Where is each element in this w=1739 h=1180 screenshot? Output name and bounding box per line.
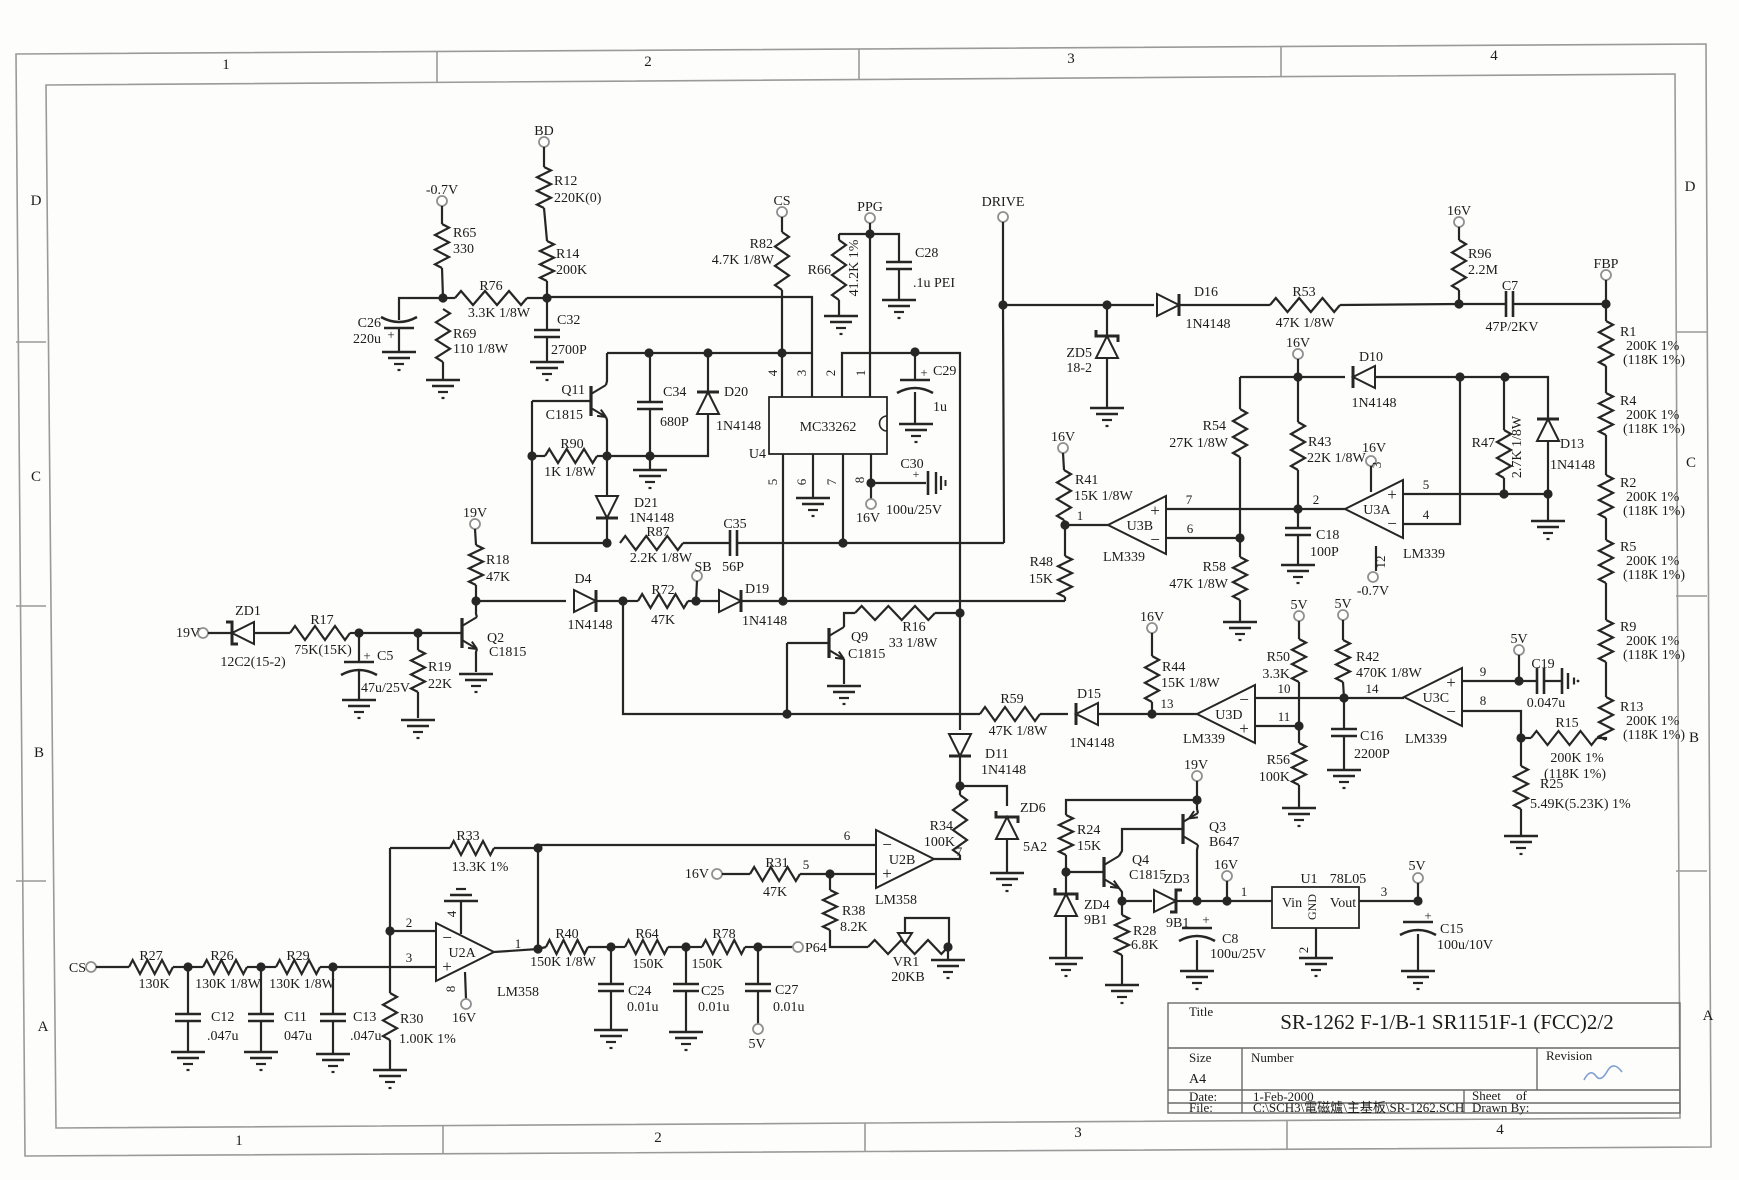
- svg-text:4: 4: [1496, 1122, 1504, 1138]
- svg-text:1N4148: 1N4148: [629, 511, 674, 526]
- svg-text:16V: 16V: [1140, 610, 1164, 625]
- wire R66 bridge: [839, 233, 870, 235]
- svg-text:4: 4: [1490, 48, 1498, 64]
- wire R31 to 5 node: [800, 873, 876, 875]
- svg-text:DRIVE: DRIVE: [982, 195, 1025, 210]
- svg-text:C8: C8: [1222, 932, 1238, 947]
- wire ZD1 to R17: [254, 632, 290, 634]
- wire 6 net: [1166, 537, 1240, 539]
- svg-text:1N4148: 1N4148: [981, 763, 1026, 778]
- regulator U1 78L05 box: [1272, 872, 1366, 928]
- wire U4 pin5: [782, 454, 784, 601]
- svg-text:R96: R96: [1468, 247, 1491, 262]
- resistor R96: [1452, 240, 1499, 290]
- ground C24: [594, 1030, 628, 1048]
- svg-text:100u/10V: 100u/10V: [1437, 938, 1493, 953]
- wire R47 top: [1503, 377, 1505, 430]
- diode D15: [1069, 687, 1114, 751]
- ground C32: [530, 362, 564, 380]
- svg-text:16V: 16V: [1362, 441, 1386, 456]
- wire R48 to D19 line: [1064, 597, 1066, 601]
- wire emitter bus: [607, 414, 708, 456]
- title block frame: [1168, 1003, 1680, 1113]
- svg-text:18-2: 18-2: [1066, 361, 1092, 376]
- svg-text:11: 11: [1278, 709, 1291, 724]
- svg-text:1N4148: 1N4148: [742, 614, 787, 629]
- svg-text:5A2: 5A2: [1023, 840, 1047, 855]
- node 16V terminal: [1051, 430, 1075, 453]
- wire R76 left: [443, 297, 455, 299]
- ground VR1: [931, 960, 965, 978]
- svg-text:2.2K 1/8W: 2.2K 1/8W: [630, 551, 693, 566]
- wire U4 pin2 bus: [842, 353, 960, 613]
- wire C13 to ground: [332, 1021, 334, 1054]
- svg-text:16V: 16V: [1051, 430, 1075, 445]
- wire base node to R59: [787, 713, 980, 715]
- node junction: [645, 451, 654, 460]
- wire pin1 node to U3B: [1065, 524, 1108, 526]
- svg-text:15K 1/8W: 15K 1/8W: [1161, 676, 1221, 691]
- svg-text:R44: R44: [1162, 660, 1185, 675]
- svg-text:4: 4: [765, 369, 780, 376]
- wire R26 to C11 node: [247, 966, 261, 968]
- diode ZD1: [220, 604, 286, 670]
- svg-text:D20: D20: [724, 385, 748, 400]
- wire node to D11: [959, 613, 961, 730]
- transistor Q4: [1104, 853, 1166, 888]
- node 5V terminal: [1408, 859, 1425, 883]
- svg-text:100P: 100P: [1310, 545, 1339, 560]
- wire FBP node to R1: [1605, 304, 1607, 321]
- ground C11: [244, 1052, 278, 1070]
- transistor Q2: [462, 617, 526, 660]
- ground C18: [1281, 565, 1315, 583]
- node junction: [256, 962, 265, 971]
- wire C15 to ground: [1417, 934, 1419, 971]
- node junction: [1454, 299, 1463, 308]
- svg-text:R25: R25: [1540, 777, 1563, 792]
- svg-text:R2: R2: [1620, 476, 1636, 491]
- svg-text:75K(15K): 75K(15K): [294, 643, 352, 658]
- wire node to R24: [1066, 800, 1197, 815]
- svg-text:1: 1: [853, 370, 868, 377]
- revision signature scribble: [1584, 1066, 1622, 1080]
- svg-text:1N4148: 1N4148: [1069, 736, 1114, 751]
- ground ZD5: [1090, 408, 1124, 426]
- svg-text:1K 1/8W: 1K 1/8W: [544, 465, 597, 480]
- svg-text:0.047u: 0.047u: [1527, 696, 1566, 711]
- wire SB node to D19: [696, 600, 719, 602]
- ground Q2: [459, 674, 493, 692]
- wire U4 pin8: [870, 454, 872, 499]
- svg-text:ZD1: ZD1: [235, 604, 261, 619]
- svg-text:LM358: LM358: [497, 985, 539, 1000]
- svg-text:R12: R12: [554, 174, 577, 189]
- node junction: [955, 781, 964, 790]
- wire R54 to node6: [1239, 457, 1241, 538]
- resistor R42: [1336, 640, 1423, 682]
- svg-text:A: A: [38, 1019, 49, 1035]
- svg-text:16V: 16V: [1286, 336, 1310, 351]
- svg-text:56P: 56P: [722, 560, 744, 575]
- svg-text:1.00K 1%: 1.00K 1%: [399, 1032, 456, 1047]
- svg-text:8.2K: 8.2K: [840, 920, 868, 935]
- svg-text:2: 2: [654, 1130, 662, 1146]
- wire C35 to DRIVE drop: [737, 542, 1004, 544]
- svg-text:15K 1/8W: 15K 1/8W: [1074, 489, 1134, 504]
- wire U1 GND pin: [1315, 928, 1317, 958]
- resistor R1: [1599, 321, 1685, 368]
- svg-text:R47: R47: [1472, 436, 1495, 451]
- wire R33 drop: [537, 848, 539, 949]
- svg-text:R59: R59: [1000, 692, 1023, 707]
- wire R59 to D15: [1040, 713, 1068, 715]
- svg-text:C27: C27: [775, 983, 798, 998]
- ground R25: [1504, 836, 1538, 854]
- svg-text:(118K 1%): (118K 1%): [1623, 568, 1685, 583]
- capacitor C29: [897, 364, 956, 415]
- wire base node to Q4: [1066, 871, 1104, 873]
- svg-text:7: 7: [1186, 492, 1193, 507]
- svg-text:13: 13: [1161, 696, 1174, 711]
- node -0.7V terminal: [426, 183, 458, 206]
- wire C28 to ground: [898, 269, 900, 300]
- svg-text:0.01u: 0.01u: [698, 1000, 730, 1015]
- node junction: [602, 538, 611, 547]
- svg-text:U1: U1: [1300, 872, 1317, 887]
- wire PPG down: [869, 223, 871, 234]
- wire BD to R12: [543, 147, 545, 167]
- wire R14 to node: [546, 281, 548, 298]
- wire 5V to R42: [1342, 620, 1344, 640]
- node junction: [1117, 896, 1126, 905]
- capacitor C5: [341, 648, 410, 696]
- diode D13: [1537, 419, 1595, 473]
- transistor Q11: [546, 383, 606, 423]
- wire CS to R27: [96, 966, 129, 968]
- capacitor C8: [1179, 912, 1266, 962]
- wire R90 right stub: [597, 455, 607, 457]
- ground C8: [1180, 971, 1214, 989]
- wire 5V to 9 net: [1518, 655, 1520, 681]
- svg-text:LM339: LM339: [1405, 732, 1447, 747]
- svg-text:R13: R13: [1620, 700, 1643, 715]
- svg-text:19V: 19V: [463, 506, 487, 521]
- svg-text:R42: R42: [1356, 650, 1379, 665]
- wire D13 ground stub: [1547, 494, 1549, 521]
- wire R5-R9: [1605, 583, 1607, 620]
- potentiometer VR1: [868, 918, 949, 985]
- wire R19 node to Q2 base: [418, 632, 462, 634]
- wire R72 to SB node: [688, 600, 696, 602]
- svg-text:R53: R53: [1292, 285, 1315, 300]
- svg-text:R65: R65: [453, 226, 476, 241]
- svg-text:200K 1%: 200K 1%: [1626, 490, 1680, 505]
- svg-text:R41: R41: [1075, 473, 1098, 488]
- svg-text:C25: C25: [701, 984, 724, 999]
- svg-text:Q3: Q3: [1209, 820, 1226, 835]
- svg-text:41.2K 1%: 41.2K 1%: [847, 239, 862, 296]
- resistor R64: [625, 927, 668, 972]
- svg-text:R72: R72: [651, 583, 674, 598]
- wire R42 to node14: [1343, 682, 1344, 698]
- node junction: [413, 628, 422, 637]
- svg-text:C34: C34: [663, 385, 686, 400]
- node junction: [782, 709, 791, 718]
- svg-text:C12: C12: [211, 1010, 234, 1025]
- svg-text:47K 1/8W: 47K 1/8W: [989, 724, 1049, 739]
- svg-text:C35: C35: [723, 517, 746, 532]
- resistor R41: [1057, 470, 1134, 520]
- svg-text:C: C: [31, 469, 41, 485]
- svg-text:D19: D19: [745, 582, 769, 597]
- svg-text:R87: R87: [646, 525, 669, 540]
- wire C25 to ground: [685, 991, 687, 1032]
- ground R66: [824, 316, 858, 334]
- svg-text:C1815: C1815: [489, 645, 526, 660]
- wire 10 net: [1255, 697, 1404, 699]
- svg-text:U3D: U3D: [1215, 708, 1242, 723]
- svg-text:C30: C30: [900, 457, 923, 472]
- svg-text:200K 1%: 200K 1%: [1626, 634, 1680, 649]
- svg-text:-0.7V: -0.7V: [1357, 584, 1389, 599]
- capacitor C27: [745, 983, 805, 1015]
- svg-text:R28: R28: [1133, 924, 1156, 939]
- svg-text:P64: P64: [805, 941, 827, 956]
- wire R4-R2: [1605, 435, 1607, 475]
- svg-text:CS: CS: [69, 961, 86, 976]
- svg-text:+: +: [920, 365, 927, 380]
- resistor R29: [269, 949, 336, 992]
- node CS terminal: [773, 194, 790, 217]
- wire node to C32: [546, 298, 548, 330]
- wire C34 bottom: [649, 409, 651, 456]
- wire Q9 base drop: [786, 643, 788, 714]
- svg-text:R40: R40: [555, 927, 578, 942]
- svg-text:+: +: [387, 327, 394, 342]
- svg-text:1u: 1u: [933, 400, 947, 415]
- wire R9-R13: [1605, 662, 1607, 697]
- svg-text:220u: 220u: [353, 332, 381, 347]
- svg-text:+: +: [1202, 912, 1209, 927]
- diode D11: [949, 734, 1026, 778]
- wire DRIVE down: [1003, 222, 1004, 543]
- wire Vout net: [1359, 900, 1418, 902]
- svg-text:D11: D11: [985, 747, 1009, 762]
- wire C5 node to R19 node: [359, 632, 418, 634]
- svg-text:D16: D16: [1194, 285, 1218, 300]
- resistor R27: [129, 949, 173, 992]
- capacitor C32: [534, 313, 587, 358]
- wire R69 to ground: [442, 362, 444, 380]
- svg-text:2200P: 2200P: [1354, 747, 1390, 762]
- node junction: [943, 942, 952, 951]
- wire C24 node to R64: [611, 946, 625, 948]
- wire R41 to node1: [1064, 520, 1065, 525]
- node junction: [777, 348, 786, 357]
- svg-text:5V: 5V: [1510, 632, 1527, 647]
- wire ZD5 to ground: [1106, 358, 1108, 408]
- wire C19 to side ground: [1544, 680, 1562, 682]
- svg-text:GND: GND: [1305, 894, 1319, 920]
- svg-text:C1815: C1815: [848, 647, 885, 662]
- svg-text:2700P: 2700P: [551, 343, 587, 358]
- svg-text:LM339: LM339: [1403, 547, 1445, 562]
- svg-text:C24: C24: [628, 984, 651, 999]
- wire Q11 emitter: [606, 417, 607, 456]
- node junction: [865, 229, 874, 238]
- svg-text:4: 4: [1423, 507, 1430, 522]
- resistor R17: [290, 613, 352, 658]
- svg-text:47K 1/8W: 47K 1/8W: [1276, 316, 1336, 331]
- svg-text:16V: 16V: [685, 867, 709, 882]
- resistor R58: [1169, 557, 1247, 600]
- node junction: [1222, 896, 1231, 905]
- node junction: [1293, 504, 1302, 513]
- node junction: [691, 596, 700, 605]
- svg-text:5V: 5V: [1408, 859, 1425, 874]
- wire SB stub: [696, 581, 697, 601]
- wire Q2 emitter: [476, 649, 477, 672]
- resistor R66: [808, 240, 846, 300]
- wire R24 to base node: [1065, 855, 1067, 872]
- resistor R54: [1169, 409, 1247, 457]
- svg-text:C11: C11: [284, 1010, 307, 1025]
- node junction: [838, 538, 847, 547]
- node junction: [998, 300, 1007, 309]
- svg-text:(118K 1%): (118K 1%): [1623, 353, 1685, 368]
- wire U2A pin8: [465, 972, 466, 999]
- svg-text:D13: D13: [1560, 437, 1584, 452]
- svg-text:1: 1: [222, 57, 230, 73]
- node junction: [1294, 721, 1303, 730]
- node junction: [1293, 372, 1302, 381]
- svg-text:3.3K 1/8W: 3.3K 1/8W: [468, 306, 531, 321]
- svg-text:47u/25V: 47u/25V: [361, 681, 410, 696]
- wire Q2 collector to D4: [475, 600, 566, 602]
- node 16V terminal: [452, 999, 476, 1026]
- svg-text:200K: 200K: [556, 263, 587, 278]
- svg-text:C13: C13: [353, 1010, 376, 1025]
- svg-text:6: 6: [844, 828, 851, 843]
- svg-text:R1: R1: [1620, 325, 1636, 340]
- title block text: [1189, 1004, 1614, 1115]
- wire C27 to 5V: [757, 991, 759, 1024]
- ground R19: [401, 720, 435, 738]
- svg-text:22K 1/8W: 22K 1/8W: [1307, 451, 1367, 466]
- wire R18 bottom: [475, 585, 477, 601]
- svg-text:C16: C16: [1360, 729, 1383, 744]
- resistor R72: [638, 583, 688, 628]
- svg-text:R76: R76: [479, 279, 502, 294]
- wire node13 to U3D: [1152, 713, 1197, 715]
- resistor R69: [436, 309, 509, 362]
- wire R1-R4: [1605, 366, 1607, 393]
- node junction: [778, 596, 787, 605]
- node junction: [385, 926, 394, 935]
- wire C27 top: [757, 947, 759, 984]
- wire 16V to R31: [722, 873, 750, 875]
- wire R50 to node11: [1298, 682, 1300, 726]
- svg-text:7: 7: [956, 844, 963, 859]
- node junction: [1339, 693, 1348, 702]
- wire Q9 collector: [844, 613, 855, 627]
- node junction: [618, 596, 627, 605]
- wire 19V down: [1196, 781, 1198, 800]
- node 5V terminal: [1334, 597, 1351, 620]
- wire C25 top: [685, 947, 687, 984]
- resistor R30: [383, 993, 456, 1047]
- svg-text:12: 12: [1373, 556, 1388, 569]
- ground C12: [171, 1052, 205, 1070]
- node junction: [866, 478, 875, 487]
- node FBP terminal: [1594, 257, 1619, 280]
- wire C12 to ground: [187, 1021, 189, 1052]
- svg-text:15K: 15K: [1077, 839, 1101, 854]
- wire R56 to ground: [1298, 785, 1300, 808]
- capacitor C7: [1486, 279, 1539, 335]
- wire R16 to node: [935, 612, 960, 614]
- node junction: [1060, 520, 1069, 529]
- svg-text:130K 1/8W: 130K 1/8W: [269, 977, 336, 992]
- svg-text:5V: 5V: [1334, 597, 1351, 612]
- node junction: [527, 451, 536, 460]
- svg-text:U4: U4: [749, 447, 766, 462]
- svg-text:2: 2: [823, 370, 838, 377]
- ground C34: [633, 470, 667, 488]
- svg-text:0.01u: 0.01u: [627, 1000, 659, 1015]
- svg-text:78L05: 78L05: [1330, 872, 1367, 887]
- svg-text:ZD6: ZD6: [1020, 801, 1046, 816]
- svg-text:R15: R15: [1555, 716, 1578, 731]
- wire -0.7V to R65: [441, 206, 443, 224]
- svg-text:150K 1/8W: 150K 1/8W: [530, 955, 597, 970]
- wire 19V to R18: [475, 529, 476, 545]
- diode D16: [1157, 285, 1231, 332]
- capacitor C12: [175, 1010, 239, 1044]
- svg-text:27K 1/8W: 27K 1/8W: [1169, 436, 1229, 451]
- node junction: [533, 944, 542, 953]
- op-amp U2B: [875, 830, 934, 908]
- svg-text:(118K 1%): (118K 1%): [1623, 504, 1685, 519]
- resistor R28: [1115, 915, 1159, 955]
- wire node8 to R25: [1520, 738, 1522, 766]
- wire Q3 emitter up: [1197, 800, 1198, 813]
- wire R38 to VR1: [830, 930, 868, 947]
- capacitor C16: [1331, 729, 1390, 762]
- svg-text:1: 1: [1077, 508, 1084, 523]
- wire R2-R5: [1605, 518, 1607, 540]
- wire U3A pin3: [1370, 466, 1372, 492]
- wire 6 net U2B: [538, 844, 876, 846]
- svg-text:.047u: .047u: [350, 1029, 382, 1044]
- svg-text:2: 2: [406, 915, 413, 930]
- wire node11 to R56: [1298, 726, 1300, 743]
- svg-text:100K: 100K: [1259, 770, 1290, 785]
- node BD terminal: [534, 124, 553, 147]
- svg-text:047u: 047u: [284, 1029, 312, 1044]
- resistor R40: [530, 927, 597, 970]
- svg-text:3: 3: [794, 370, 809, 377]
- wire node6 to R58: [1239, 538, 1241, 557]
- ground C28: [882, 300, 916, 318]
- svg-text:R54: R54: [1203, 419, 1226, 434]
- svg-text:47K: 47K: [651, 613, 675, 628]
- resistor R26: [195, 949, 262, 992]
- capacitor C30: [886, 457, 946, 518]
- node 5V terminal: [1290, 598, 1307, 621]
- svg-text:47K 1/8W: 47K 1/8W: [1169, 577, 1229, 592]
